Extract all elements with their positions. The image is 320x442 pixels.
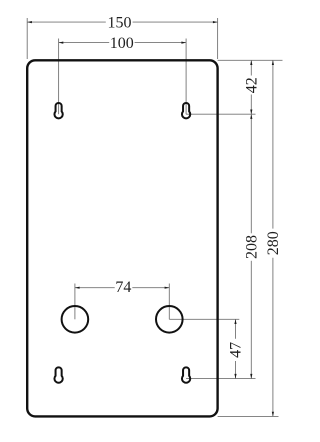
arrow up 280: [272, 60, 274, 65]
svg-text:42: 42: [244, 77, 261, 93]
hole circle right: [156, 306, 183, 333]
svg-text:150: 150: [108, 14, 132, 31]
extension line top-right keyhole center: [186, 113, 255, 115]
arrow down 280: [272, 412, 274, 417]
arrow down 47: [234, 374, 236, 379]
extension line top right corner: [218, 59, 283, 61]
keyhole slot top-left: [54, 103, 62, 118]
arrow up 47: [234, 319, 236, 324]
dimension line 42: [250, 60, 252, 75]
arrow up 42: [250, 60, 252, 65]
svg-text:74: 74: [115, 279, 131, 296]
extension line right of dim 150: [217, 18, 219, 59]
arrow down 42: [250, 110, 252, 115]
extension line bottom right corner: [218, 415, 279, 417]
dimension line 74: [75, 287, 115, 289]
arrow down 208: [250, 374, 252, 379]
arrow right 74: [165, 287, 170, 289]
extension line left of dim 150: [26, 18, 28, 59]
dimension line 208: [250, 114, 252, 233]
extension line left of dim 74: [74, 284, 76, 320]
keyhole slot bottom-left: [54, 367, 62, 382]
keyhole slot bottom-right: [182, 367, 190, 382]
dimension line 280: [272, 60, 274, 228]
arrow left 74: [75, 287, 80, 289]
dimension line 150: [27, 21, 106, 23]
arrow left 150: [27, 21, 32, 23]
extension line left of dim 100: [58, 39, 60, 115]
extension line right of dim 74: [168, 284, 170, 320]
arrow up 208: [250, 114, 252, 119]
hole circle left: [62, 306, 89, 333]
arrow right 100: [181, 42, 186, 44]
extension line right circle center: [169, 318, 239, 320]
arrow right 150: [213, 21, 218, 23]
dimension line 100: [59, 42, 110, 44]
extension line bottom-right keyhole center: [186, 378, 255, 380]
plate outline: [27, 60, 217, 416]
arrow left 100: [59, 42, 64, 44]
svg-text:208: 208: [244, 235, 261, 259]
dimension line 47: [235, 319, 237, 339]
svg-text:280: 280: [265, 231, 282, 255]
extension line right of dim 100: [185, 39, 187, 115]
keyhole slot top-right: [182, 103, 190, 118]
svg-text:47: 47: [228, 342, 245, 358]
svg-text:100: 100: [110, 35, 134, 52]
